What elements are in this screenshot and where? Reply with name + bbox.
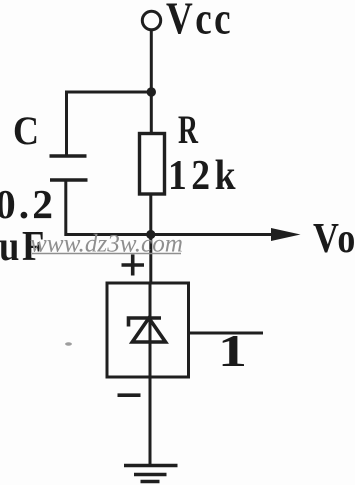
ground xyxy=(124,466,178,482)
wire output line to arrow (Vo) xyxy=(66,233,281,236)
wire Vcc to resistor R top xyxy=(150,30,153,135)
terminal Vcc (open circle) xyxy=(142,11,160,29)
svg-text:1: 1 xyxy=(218,326,247,376)
wire through box xyxy=(149,283,152,377)
diode D1 cathode bar with zener tail xyxy=(129,318,162,327)
diode D1 triangle xyxy=(132,318,165,342)
arrowhead Vo xyxy=(271,228,301,241)
label + (polarity plus) xyxy=(122,255,145,276)
box U1 (device outline) xyxy=(107,283,189,377)
capacitor C top plate xyxy=(50,154,87,158)
svg-text:Vo: Vo xyxy=(313,216,355,262)
svg-text:C: C xyxy=(13,108,39,153)
node junction dot (Vcc wire / capacitor branch) xyxy=(147,87,156,96)
resistor R body xyxy=(140,134,165,195)
svg-text:12k: 12k xyxy=(168,153,240,199)
svg-text:R: R xyxy=(178,107,199,152)
node Vo junction dot xyxy=(146,230,155,239)
wire junction to capacitor branch (horizontal) xyxy=(67,91,152,94)
svg-text:Vcc: Vcc xyxy=(166,0,233,44)
wire box to ground xyxy=(149,377,152,466)
wire resistor bottom to box xyxy=(149,194,152,284)
capacitor C bottom plate xyxy=(50,178,88,182)
wire capacitor top lead xyxy=(65,91,68,156)
wire pin 1 xyxy=(189,332,264,335)
wire capacitor bottom lead xyxy=(64,182,67,237)
speck (scan artifact) xyxy=(65,342,72,345)
svg-text:0.2: 0.2 xyxy=(0,181,56,227)
label - (polarity minus) xyxy=(118,393,141,397)
